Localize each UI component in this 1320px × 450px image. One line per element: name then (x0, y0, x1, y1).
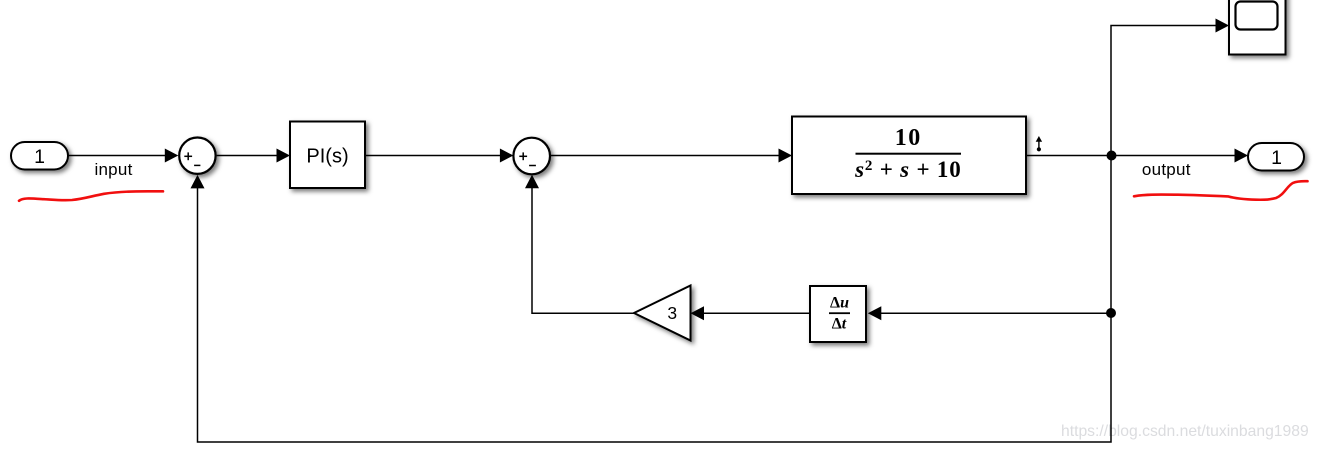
svg-text:output: output (1142, 160, 1191, 179)
svg-text:3: 3 (667, 303, 677, 323)
svg-text:1: 1 (1271, 147, 1282, 169)
svg-text:PI(s): PI(s) (306, 145, 348, 167)
svg-text:Δu: Δu (830, 295, 849, 312)
svg-text:Δt: Δt (832, 315, 847, 332)
svg-text:input: input (94, 160, 132, 179)
svg-text:10: 10 (895, 125, 922, 151)
svg-text:1: 1 (34, 146, 45, 168)
svg-text:https://blog.csdn.net/tuxinban: https://blog.csdn.net/tuxinbang1989 (1061, 423, 1309, 440)
